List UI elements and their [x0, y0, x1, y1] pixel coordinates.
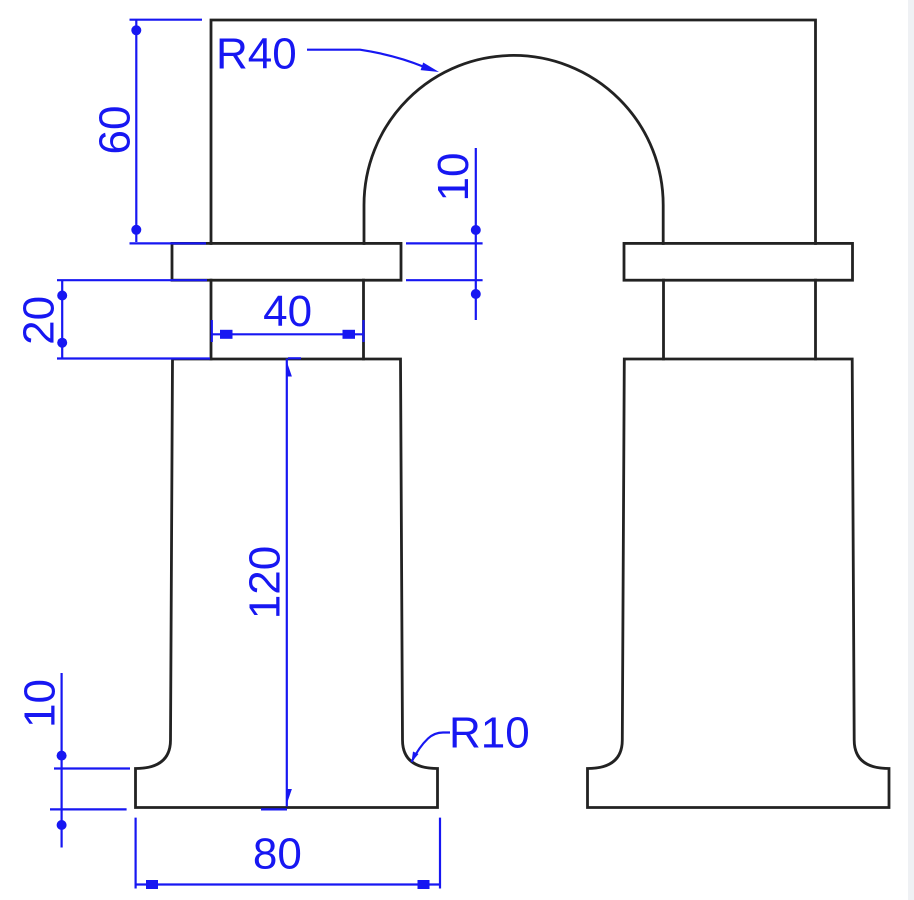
dimension 10 flange: extension line top — [406, 242, 483, 244]
svg-text:40: 40 — [263, 287, 312, 336]
dimension 80: dot right — [418, 880, 430, 889]
dimension 80: dot left — [146, 880, 158, 889]
dimension 20: dimension line — [61, 280, 63, 359]
svg-text:10: 10 — [16, 679, 65, 728]
dimension 10 flange: dimension line — [475, 148, 477, 320]
leader R10: arrowhead — [412, 752, 419, 763]
part outline: arch R40 — [364, 55, 663, 243]
dimension 40: extension line right — [362, 320, 364, 342]
part outline: left neck right side — [362, 280, 365, 359]
part outline: top bridge — [211, 20, 816, 244]
part outline: left flange — [172, 243, 401, 280]
dimension 120: dimension line — [286, 359, 288, 807]
part outline: right neck left side — [662, 280, 665, 359]
dimension 40: dot left — [220, 330, 233, 339]
dimension 80: extension line left — [135, 818, 137, 889]
dimension 10 foot: extension line top — [54, 767, 130, 769]
dimension 20: dot bottom — [57, 338, 67, 348]
dimension 120: bottom extension stub — [261, 808, 287, 810]
dimension 20: dot top — [57, 291, 67, 301]
svg-text:10: 10 — [429, 153, 478, 202]
dimension 60: extension line bottom — [130, 242, 207, 244]
dimension 80: dimension line — [136, 883, 440, 885]
dimension 10 foot: extension line bottom — [50, 808, 127, 810]
dimension 10 flange: extension line bottom — [406, 279, 483, 281]
dimension 10 flange: dot bottom — [471, 289, 481, 299]
leader R40 — [307, 50, 423, 67]
dimension 20: extension line top — [57, 279, 207, 281]
dimension 80: extension line right — [439, 818, 441, 889]
part outline: right neck right side — [814, 280, 817, 359]
leader R10 — [412, 733, 451, 763]
svg-text:60: 60 — [91, 106, 140, 155]
dimension 60: extension line top — [130, 19, 203, 21]
svg-text:80: 80 — [253, 830, 302, 879]
part outline: left neck left side — [210, 280, 213, 359]
svg-text:120: 120 — [241, 546, 290, 619]
dimension 40: extension line left — [211, 320, 213, 342]
page edge strip — [908, 0, 914, 900]
dimension 60: dot top — [131, 25, 141, 35]
dimension 120: arrowhead top — [286, 361, 292, 377]
part outline: right column and foot — [588, 359, 890, 808]
dimension 10 foot: dimension line — [60, 673, 62, 848]
dimension 10 foot: dot top — [57, 751, 67, 761]
dimension 60: dimension line — [135, 20, 137, 242]
dimension 120: arrowhead bottom — [286, 789, 292, 805]
svg-text:R40: R40 — [216, 30, 297, 79]
dimension 10 foot: dot bottom — [57, 820, 67, 830]
dimension 20: extension line bottom — [57, 357, 210, 359]
part outline: right flange — [624, 243, 853, 280]
dimension 40: dot right — [343, 330, 356, 339]
dimension 120: top extension stub — [288, 357, 301, 359]
leader R40: arrowhead — [421, 63, 439, 73]
svg-text:20: 20 — [15, 296, 64, 345]
dimension 60: dot bottom — [131, 225, 141, 235]
dimension 10 flange: dot top — [471, 225, 481, 235]
part outline: left column and foot — [136, 359, 438, 808]
svg-text:R10: R10 — [449, 709, 530, 758]
dimension 40: dimension line — [212, 333, 364, 335]
